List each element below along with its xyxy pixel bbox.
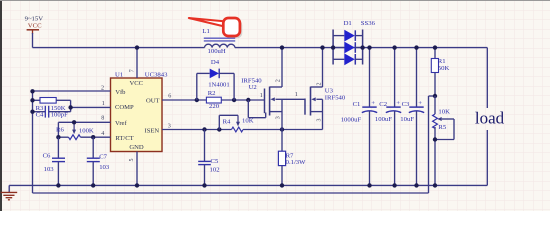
capacitor C3 10uF: [400, 45, 424, 185]
svg-text:COMP: COMP: [115, 104, 134, 111]
svg-text:D4: D4: [211, 59, 220, 66]
svg-text:7: 7: [130, 69, 136, 72]
svg-text:2: 2: [316, 82, 322, 85]
svg-text:Vfb: Vfb: [115, 89, 126, 96]
svg-text:R1: R1: [438, 58, 446, 65]
ground symbol: [1, 185, 18, 199]
svg-text:C3: C3: [402, 101, 410, 108]
wire: load branch verticals: [486, 48, 488, 186]
svg-text:UC3843: UC3843: [145, 71, 168, 78]
svg-text:R2: R2: [208, 90, 216, 97]
svg-text:R5: R5: [438, 124, 446, 131]
svg-text:3: 3: [316, 118, 322, 121]
svg-text:10uF: 10uF: [400, 116, 414, 123]
svg-text:+: +: [418, 100, 422, 107]
svg-text:103: 103: [99, 164, 110, 171]
svg-text:220: 220: [209, 103, 220, 110]
wire: gate node loop to U2 gate: [248, 100, 265, 118]
svg-text:1000uF: 1000uF: [341, 117, 362, 124]
IC pin numbers: [101, 69, 171, 161]
wire: Vfb pin2 + feedback left column and lower return line: [30, 89, 435, 193]
svg-text:ISEN: ISEN: [145, 127, 160, 134]
wire: pin5 GND to bottom rail: [136, 152, 138, 186]
resistor R1 50K: [431, 45, 449, 98]
svg-text:100uF: 100uF: [375, 116, 392, 123]
svg-text:1: 1: [102, 101, 105, 107]
svg-text:C5: C5: [211, 158, 219, 165]
svg-text:R4: R4: [223, 118, 231, 125]
svg-text:100K: 100K: [79, 127, 94, 134]
diode D4 1N4001 bypass: [197, 59, 234, 100]
svg-text:6: 6: [168, 93, 171, 99]
svg-text:10K: 10K: [438, 109, 450, 116]
wire: top rail: [33, 47, 488, 49]
svg-text:L1: L1: [202, 28, 209, 35]
svg-text:1: 1: [260, 93, 263, 99]
svg-text:D1: D1: [344, 20, 352, 27]
potentiometer R5 10K: [433, 96, 454, 185]
wire: U3 gate from U2 source node: [282, 98, 305, 100]
IC U1 UC3843: [111, 71, 169, 151]
svg-text:U2: U2: [249, 84, 257, 91]
svg-text:100pF: 100pF: [51, 112, 68, 119]
svg-text:1N4001: 1N4001: [208, 82, 230, 89]
svg-text:5: 5: [129, 158, 135, 161]
svg-text:load: load: [475, 108, 505, 127]
svg-text:50K: 50K: [438, 65, 450, 72]
svg-text:3: 3: [168, 124, 171, 130]
diode D1 SS36 (triple): [331, 20, 376, 65]
svg-text:C2: C2: [379, 101, 387, 108]
capacitor C1 1000uF: [341, 45, 377, 185]
svg-text:C4: C4: [36, 112, 44, 119]
potentiometer R6 100K on RT/CT: [56, 120, 111, 140]
svg-text:U1: U1: [115, 72, 123, 79]
capacitor C4 100pF: [30, 106, 70, 119]
svg-text:3: 3: [276, 116, 282, 119]
svg-text:100uH: 100uH: [208, 48, 226, 55]
capacitor C6 103: [43, 137, 65, 185]
MOSFET U2 IRF540: [241, 45, 284, 129]
svg-text:C6: C6: [43, 152, 51, 159]
svg-text:+: +: [371, 100, 375, 107]
svg-text:VCC: VCC: [28, 23, 42, 30]
svg-text:4: 4: [101, 131, 104, 137]
svg-text:R6: R6: [56, 127, 64, 134]
svg-text:C1: C1: [353, 101, 361, 108]
wire: OUT pin6 row: [162, 98, 265, 102]
svg-text:+: +: [396, 100, 400, 107]
svg-text:RT/CT: RT/CT: [115, 135, 133, 142]
svg-text:1: 1: [295, 92, 298, 98]
capacitor C2 100uF: [375, 45, 401, 185]
svg-text:VCC: VCC: [130, 80, 144, 87]
capacitor C5 102: [198, 130, 219, 186]
svg-text:8: 8: [101, 116, 104, 122]
svg-text:SS36: SS36: [361, 20, 376, 27]
inductor L1 100uH: [202, 28, 235, 55]
resistor R7 0.1/3W: [278, 130, 306, 186]
svg-text:OUT: OUT: [146, 97, 160, 104]
resistor R2 220: [206, 90, 221, 110]
wire: R3/C4 right side to COMP pin1: [68, 100, 110, 111]
svg-text:2: 2: [276, 79, 282, 82]
wire: bottom ground rail: [9, 183, 487, 187]
svg-text:102: 102: [210, 166, 220, 173]
svg-text:IRF540: IRF540: [325, 94, 346, 101]
power symbol VCC 9~15V: [25, 16, 44, 48]
MOSFET U3 IRF540: [295, 45, 346, 129]
svg-text:Vref: Vref: [115, 120, 127, 127]
wire: Vref pin8: [58, 122, 110, 137]
svg-text:103: 103: [44, 166, 55, 173]
wire: pin7 to top rail: [136, 48, 138, 78]
capacitor C7 103: [87, 137, 110, 185]
svg-text:0.1/3W: 0.1/3W: [286, 159, 307, 166]
resistor R3 150K: [30, 98, 70, 113]
svg-text:GND: GND: [129, 144, 144, 151]
svg-text:C7: C7: [99, 153, 107, 160]
potentiometer R4 10K: [219, 115, 253, 132]
wire: ISEN pin3 row: [162, 127, 323, 131]
red annotation callout: [189, 18, 243, 38]
svg-text:9~15V: 9~15V: [25, 16, 44, 23]
window border left/top: [0, 0, 2, 211]
